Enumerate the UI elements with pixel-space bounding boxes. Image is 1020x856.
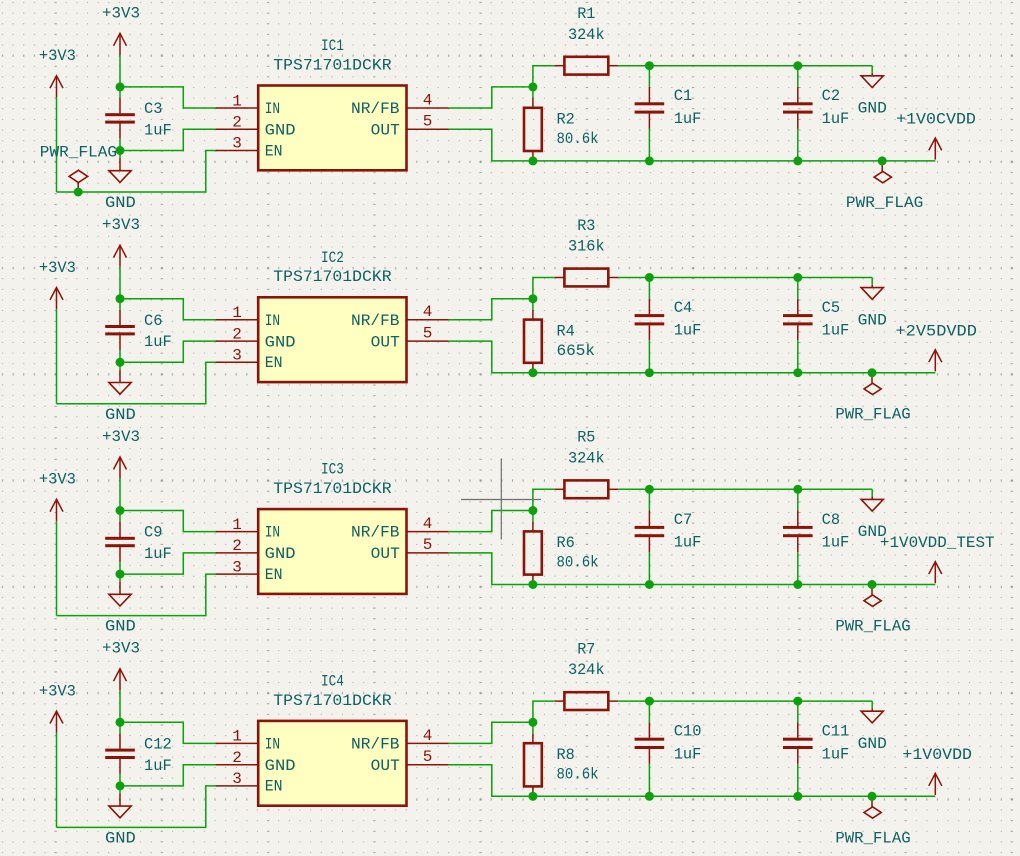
svg-text:4: 4	[423, 515, 433, 533]
svg-text:GND: GND	[858, 100, 887, 118]
svg-text:PWR_FLAG: PWR_FLAG	[835, 406, 910, 424]
svg-text:OUT: OUT	[371, 333, 400, 351]
svg-text:1uF: 1uF	[144, 121, 172, 139]
svg-text:C5: C5	[822, 299, 841, 317]
svg-text:5: 5	[423, 748, 433, 766]
svg-text:OUT: OUT	[371, 122, 400, 140]
svg-text:80.6k: 80.6k	[557, 766, 599, 784]
svg-text:+3V3: +3V3	[102, 428, 140, 446]
svg-text:4: 4	[423, 303, 433, 321]
svg-text:2: 2	[232, 537, 242, 555]
svg-text:C3: C3	[144, 100, 163, 118]
svg-text:+1V0CVDD: +1V0CVDD	[896, 111, 976, 129]
svg-text:C11: C11	[822, 723, 850, 741]
svg-text:GND: GND	[105, 194, 136, 212]
svg-text:1uF: 1uF	[822, 745, 850, 763]
svg-text:EN: EN	[265, 778, 283, 796]
svg-text:IC1: IC1	[321, 37, 344, 55]
svg-text:GND: GND	[105, 406, 136, 424]
svg-text:GND: GND	[858, 735, 887, 753]
svg-text:2: 2	[232, 114, 242, 132]
svg-text:1uF: 1uF	[674, 534, 702, 552]
svg-text:4: 4	[423, 727, 433, 745]
svg-text:R5: R5	[577, 429, 595, 447]
svg-text:5: 5	[423, 324, 433, 342]
svg-text:5: 5	[423, 113, 433, 131]
svg-text:C1: C1	[674, 87, 693, 105]
svg-text:4: 4	[423, 91, 433, 109]
svg-text:GND: GND	[265, 333, 296, 351]
svg-text:C7: C7	[674, 511, 693, 529]
svg-text:TPS71701DCKR: TPS71701DCKR	[273, 480, 392, 498]
svg-text:3: 3	[232, 558, 242, 576]
svg-text:GND: GND	[858, 311, 887, 329]
svg-text:R6: R6	[557, 534, 575, 552]
svg-text:1uF: 1uF	[144, 545, 172, 563]
svg-text:IC2: IC2	[321, 249, 344, 267]
svg-text:665k: 665k	[557, 342, 596, 360]
svg-text:GND: GND	[265, 545, 296, 563]
svg-text:R8: R8	[557, 746, 575, 764]
svg-text:IC3: IC3	[321, 461, 344, 479]
svg-text:TPS71701DCKR: TPS71701DCKR	[273, 268, 392, 286]
svg-text:+3V3: +3V3	[39, 682, 76, 700]
svg-text:NR/FB: NR/FB	[351, 312, 400, 330]
svg-text:C10: C10	[674, 723, 702, 741]
svg-text:EN: EN	[265, 142, 283, 160]
svg-text:+3V3: +3V3	[102, 216, 140, 234]
svg-text:324k: 324k	[568, 661, 605, 679]
svg-text:OUT: OUT	[371, 757, 400, 775]
svg-text:+3V3: +3V3	[102, 640, 140, 658]
svg-text:TPS71701DCKR: TPS71701DCKR	[273, 692, 392, 710]
svg-text:R1: R1	[577, 5, 595, 23]
svg-text:C9: C9	[144, 524, 163, 542]
svg-text:1: 1	[232, 728, 242, 746]
svg-text:PWR_FLAG: PWR_FLAG	[835, 829, 910, 847]
svg-text:+3V3: +3V3	[39, 471, 76, 489]
svg-text:GND: GND	[105, 618, 136, 636]
svg-text:EN: EN	[265, 566, 283, 584]
svg-text:+2V5DVDD: +2V5DVDD	[896, 322, 977, 340]
svg-text:IN: IN	[265, 312, 280, 330]
svg-text:IN: IN	[265, 736, 280, 754]
svg-text:GND: GND	[265, 757, 296, 775]
svg-text:IC4: IC4	[321, 672, 344, 690]
svg-text:C4: C4	[674, 299, 693, 317]
svg-text:1uF: 1uF	[822, 534, 850, 552]
svg-text:1uF: 1uF	[144, 757, 172, 775]
svg-text:PWR_FLAG: PWR_FLAG	[846, 194, 924, 212]
svg-text:2: 2	[232, 325, 242, 343]
svg-text:324k: 324k	[568, 26, 605, 44]
svg-text:IN: IN	[265, 100, 280, 118]
svg-text:80.6k: 80.6k	[557, 130, 599, 148]
svg-text:+1V0VDD: +1V0VDD	[902, 746, 972, 764]
svg-text:C6: C6	[144, 312, 163, 330]
svg-text:3: 3	[232, 770, 242, 788]
svg-text:IN: IN	[265, 524, 280, 542]
svg-text:3: 3	[232, 347, 242, 365]
svg-text:+1V0VDD_TEST: +1V0VDD_TEST	[880, 534, 995, 552]
svg-text:PWR_FLAG: PWR_FLAG	[835, 618, 910, 636]
svg-text:1uF: 1uF	[674, 110, 702, 128]
svg-text:+3V3: +3V3	[102, 4, 140, 22]
svg-text:C2: C2	[822, 87, 841, 105]
svg-text:OUT: OUT	[371, 545, 400, 563]
svg-text:1uF: 1uF	[144, 333, 172, 351]
svg-text:C12: C12	[144, 736, 172, 754]
svg-text:C8: C8	[822, 511, 841, 529]
svg-text:R3: R3	[577, 217, 595, 235]
svg-text:316k: 316k	[568, 238, 605, 256]
svg-text:1uF: 1uF	[822, 322, 850, 340]
svg-text:1uF: 1uF	[674, 322, 702, 340]
svg-text:80.6k: 80.6k	[557, 554, 599, 572]
svg-text:TPS71701DCKR: TPS71701DCKR	[273, 56, 392, 74]
svg-text:1uF: 1uF	[822, 110, 850, 128]
svg-text:1: 1	[232, 304, 242, 322]
svg-text:R2: R2	[557, 111, 575, 129]
svg-text:GND: GND	[105, 829, 136, 847]
svg-text:R7: R7	[577, 641, 595, 659]
svg-text:PWR_FLAG: PWR_FLAG	[40, 144, 117, 162]
svg-text:1: 1	[232, 516, 242, 534]
svg-text:R4: R4	[557, 322, 575, 340]
svg-text:1uF: 1uF	[674, 745, 702, 763]
svg-text:2: 2	[232, 749, 242, 767]
svg-text:NR/FB: NR/FB	[351, 524, 400, 542]
svg-text:5: 5	[423, 536, 433, 554]
svg-text:+3V3: +3V3	[39, 47, 76, 65]
svg-text:3: 3	[232, 135, 242, 153]
svg-text:1: 1	[232, 92, 242, 110]
svg-text:+3V3: +3V3	[39, 259, 76, 277]
svg-text:NR/FB: NR/FB	[351, 736, 400, 754]
svg-text:EN: EN	[265, 354, 283, 372]
svg-text:GND: GND	[265, 122, 296, 140]
svg-text:324k: 324k	[568, 449, 605, 467]
svg-text:NR/FB: NR/FB	[351, 100, 400, 118]
